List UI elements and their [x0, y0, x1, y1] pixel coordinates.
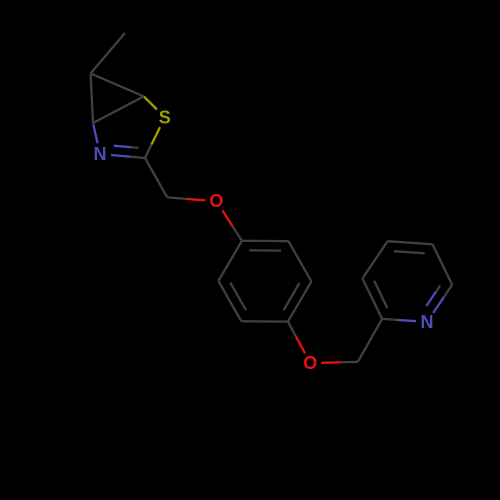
wire bond CH2a-O1: [186, 199, 205, 201]
wire bond benzene Cb-Cc: [288, 241, 311, 281]
wire bond C3p=C2p double: [362, 279, 382, 319]
wire bond C5p=C4p double: [388, 241, 433, 244]
svg-text:S: S: [159, 107, 171, 127]
svg-text:O: O: [303, 353, 317, 373]
wire bond O2-CH2b: [321, 361, 340, 364]
wire bond benzene Cf-Ca: [218, 241, 242, 281]
wire bond benzene Ca=Cb: [242, 240, 289, 243]
wire bond N3-C4: [93, 124, 97, 143]
wire bond C2-CH2a: [145, 158, 167, 197]
wire bond V1-C5: [91, 73, 144, 96]
wire bond C6p-C5p: [433, 244, 453, 284]
wire bond Cd-O2: [296, 336, 305, 353]
svg-text:N: N: [94, 144, 107, 164]
wire bond V1-CH3: [91, 33, 125, 73]
wire bond benzene Cc=Cd: [288, 281, 312, 321]
wire bond C4-C5: [93, 96, 144, 123]
svg-text:O: O: [209, 191, 223, 211]
wire bond benzene Ce=Cf: [218, 281, 241, 321]
wire bond V1-C4: [91, 73, 93, 123]
wire bond S-C2: [152, 127, 161, 144]
wire bond C2p-Npy: [397, 320, 416, 321]
wire bond O1-Ca: [222, 210, 232, 226]
wire bond CH2b-C2p: [358, 319, 382, 362]
wire bond C4p-C3p: [362, 241, 387, 278]
svg-text:N: N: [421, 312, 434, 332]
wire bond benzene Cd-Ce: [241, 320, 288, 323]
wire bond C2=N3 double: [111, 155, 130, 157]
wire bond C5-S: [144, 96, 157, 109]
wire bond Npy=C6p double: [433, 297, 444, 313]
